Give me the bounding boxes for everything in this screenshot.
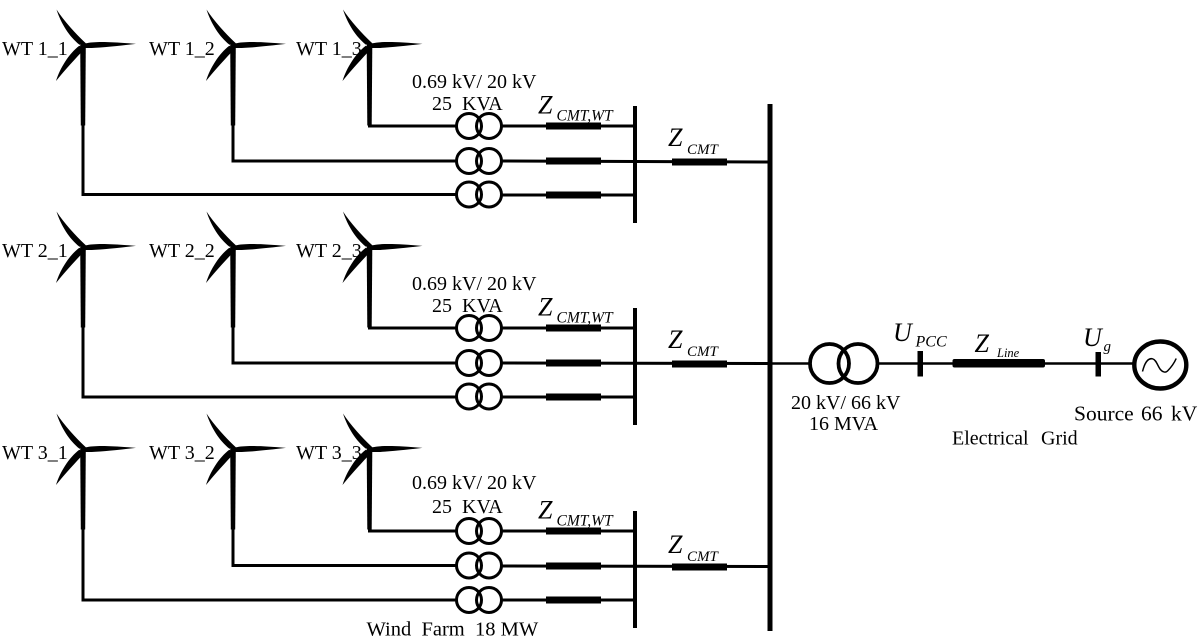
svg-text:Z: Z [538, 293, 553, 322]
transformer T3_3 row 1 [457, 519, 502, 544]
svg-text:0.69 kV/ 20 kV: 0.69 kV/ 20 kV [412, 472, 537, 494]
wind turbine WT 3_2 [206, 414, 286, 530]
svg-text:U: U [893, 318, 914, 347]
wind turbine WT 1_1 [56, 10, 136, 126]
impedance Z_CMT,WT row 1 (group 2) [546, 325, 601, 332]
impedance Z_CMT,WT row 3 (group 3) [546, 597, 601, 604]
bus group 1 [633, 106, 637, 223]
transformer T1_1 row 3 [457, 182, 502, 207]
bus group 3 [633, 511, 637, 628]
svg-text:PCC: PCC [915, 334, 947, 351]
svg-text:WT 2_1: WT 2_1 [2, 240, 68, 262]
svg-text:CMT,WT: CMT,WT [557, 108, 615, 125]
bus group 2 [633, 308, 637, 425]
svg-text:WT 2_2: WT 2_2 [149, 240, 215, 262]
svg-text:WT 3_3: WT 3_3 [296, 442, 362, 464]
svg-text:Z: Z [538, 91, 553, 120]
impedance Z_CMT,WT row 2 (group 2) [546, 360, 601, 367]
wire transformer to source [878, 362, 1136, 365]
wind turbine WT 3_1 [56, 414, 136, 530]
wire row 2 transformer to main bus [502, 161, 771, 162]
wire WT 3_3 to row 1 [370, 529, 457, 531]
impedance Z_CMT,WT row 1 (group 3) [546, 528, 601, 535]
transformer T1_2 row 2 [457, 149, 502, 174]
wire WT 3_1 to row 3 [83, 529, 457, 600]
svg-text:0.69 kV/ 20 kV: 0.69 kV/ 20 kV [412, 71, 537, 93]
svg-text:CMT,WT: CMT,WT [557, 513, 615, 530]
wire WT 1_3 to row 1 [370, 125, 457, 127]
svg-text:Z: Z [538, 496, 553, 525]
svg-text:20 kV/ 66 kV: 20 kV/ 66 kV [791, 392, 901, 414]
wind turbine WT 1_2 [206, 10, 286, 126]
svg-text:Line: Line [996, 346, 1020, 360]
svg-text:g: g [1104, 339, 1112, 355]
svg-text:WT 1_2: WT 1_2 [149, 38, 215, 60]
transformer 20kV/66kV [810, 344, 878, 383]
wire row 1 transformer to bus 3 [502, 530, 636, 533]
wind turbine WT 2_3 [343, 212, 423, 328]
wire WT 2_3 to row 1 [370, 327, 457, 328]
transformer T3_1 row 3 [457, 588, 502, 613]
svg-text:Z: Z [668, 530, 683, 559]
impedance Z_CMT,WT row 3 (group 2) [546, 394, 601, 401]
impedance Z_CMT,WT row 2 (group 3) [546, 563, 601, 570]
transformer T2_3 row 1 [457, 316, 502, 341]
wire row 3 transformer to bus 3 [502, 599, 636, 602]
wire WT 1_2 to row 2 [233, 125, 457, 161]
svg-text:Source66kV: Source66kV [1074, 402, 1198, 426]
impedance Z_CMT,WT row 3 (group 1) [546, 192, 601, 199]
svg-text:WT 2_3: WT 2_3 [296, 240, 362, 262]
impedance Z_CMT (group 2) [672, 361, 727, 368]
wire row 1 transformer to bus 2 [502, 327, 636, 330]
wind turbine WT 3_3 [343, 414, 423, 530]
svg-text:WT 3_1: WT 3_1 [2, 442, 68, 464]
svg-text:25 KVA: 25 KVA [432, 93, 503, 115]
impedance Z_CMT (group 1) [672, 159, 727, 166]
svg-text:CMT: CMT [687, 344, 720, 360]
wind turbine WT 2_1 [56, 212, 136, 328]
wire WT 3_2 to row 2 [233, 529, 457, 566]
wire WT 2_1 to row 3 [83, 327, 457, 397]
node U_PCC tick [918, 351, 924, 377]
svg-text:WT 1_1: WT 1_1 [2, 38, 68, 60]
wire row 2 transformer to main bus (group 3) [502, 565, 771, 569]
svg-text:CMT,WT: CMT,WT [557, 310, 615, 327]
svg-text:CMT: CMT [687, 142, 720, 158]
sine wave symbol [1143, 359, 1177, 373]
svg-text:WT 3_2: WT 3_2 [149, 442, 215, 464]
svg-text:Wind Farm 18 MW: Wind Farm 18 MW [367, 619, 539, 639]
wire WT 1_1 to row 3 [83, 125, 457, 195]
svg-text:Z: Z [668, 123, 683, 152]
svg-text:ElectricalGrid: ElectricalGrid [952, 428, 1078, 450]
wire main bus to grid transformer [770, 362, 811, 365]
impedance Z_CMT,WT row 2 (group 1) [546, 158, 601, 165]
source 66 kV circle [1134, 342, 1186, 389]
impedance Z_CMT,WT row 1 (group 1) [546, 123, 601, 130]
svg-text:CMT: CMT [687, 549, 720, 565]
svg-text:Z: Z [975, 329, 990, 358]
wire row 1 transformer to bus 1 [502, 125, 636, 128]
wire row 2 transformer to main bus (group 2) [502, 362, 771, 366]
impedance Z_CMT (group 3) [672, 564, 727, 571]
svg-text:0.69 kV/ 20 kV: 0.69 kV/ 20 kV [412, 273, 537, 295]
wire row 3 transformer to bus 1 [502, 194, 636, 197]
wind turbine WT 2_2 [206, 212, 286, 328]
svg-text:25 KVA: 25 KVA [432, 496, 503, 518]
svg-text:Z: Z [668, 325, 683, 354]
transformer T2_2 row 2 [457, 351, 502, 376]
node U_g tick [1096, 352, 1102, 377]
wire WT 2_2 to row 2 [233, 327, 457, 363]
transformer T2_1 row 3 [457, 384, 502, 409]
impedance Z_Line [953, 359, 1046, 368]
svg-text:16 MVA: 16 MVA [809, 413, 879, 435]
main bus [768, 104, 773, 631]
wire row 3 transformer to bus 2 [502, 396, 636, 399]
wind turbine WT 1_3 [343, 10, 423, 126]
svg-text:WT 1_3: WT 1_3 [296, 38, 362, 60]
transformer T1_3 row 1 [457, 114, 502, 139]
svg-text:25 KVA: 25 KVA [432, 295, 503, 317]
transformer T3_2 row 2 [457, 553, 502, 578]
svg-text:U: U [1083, 323, 1104, 352]
